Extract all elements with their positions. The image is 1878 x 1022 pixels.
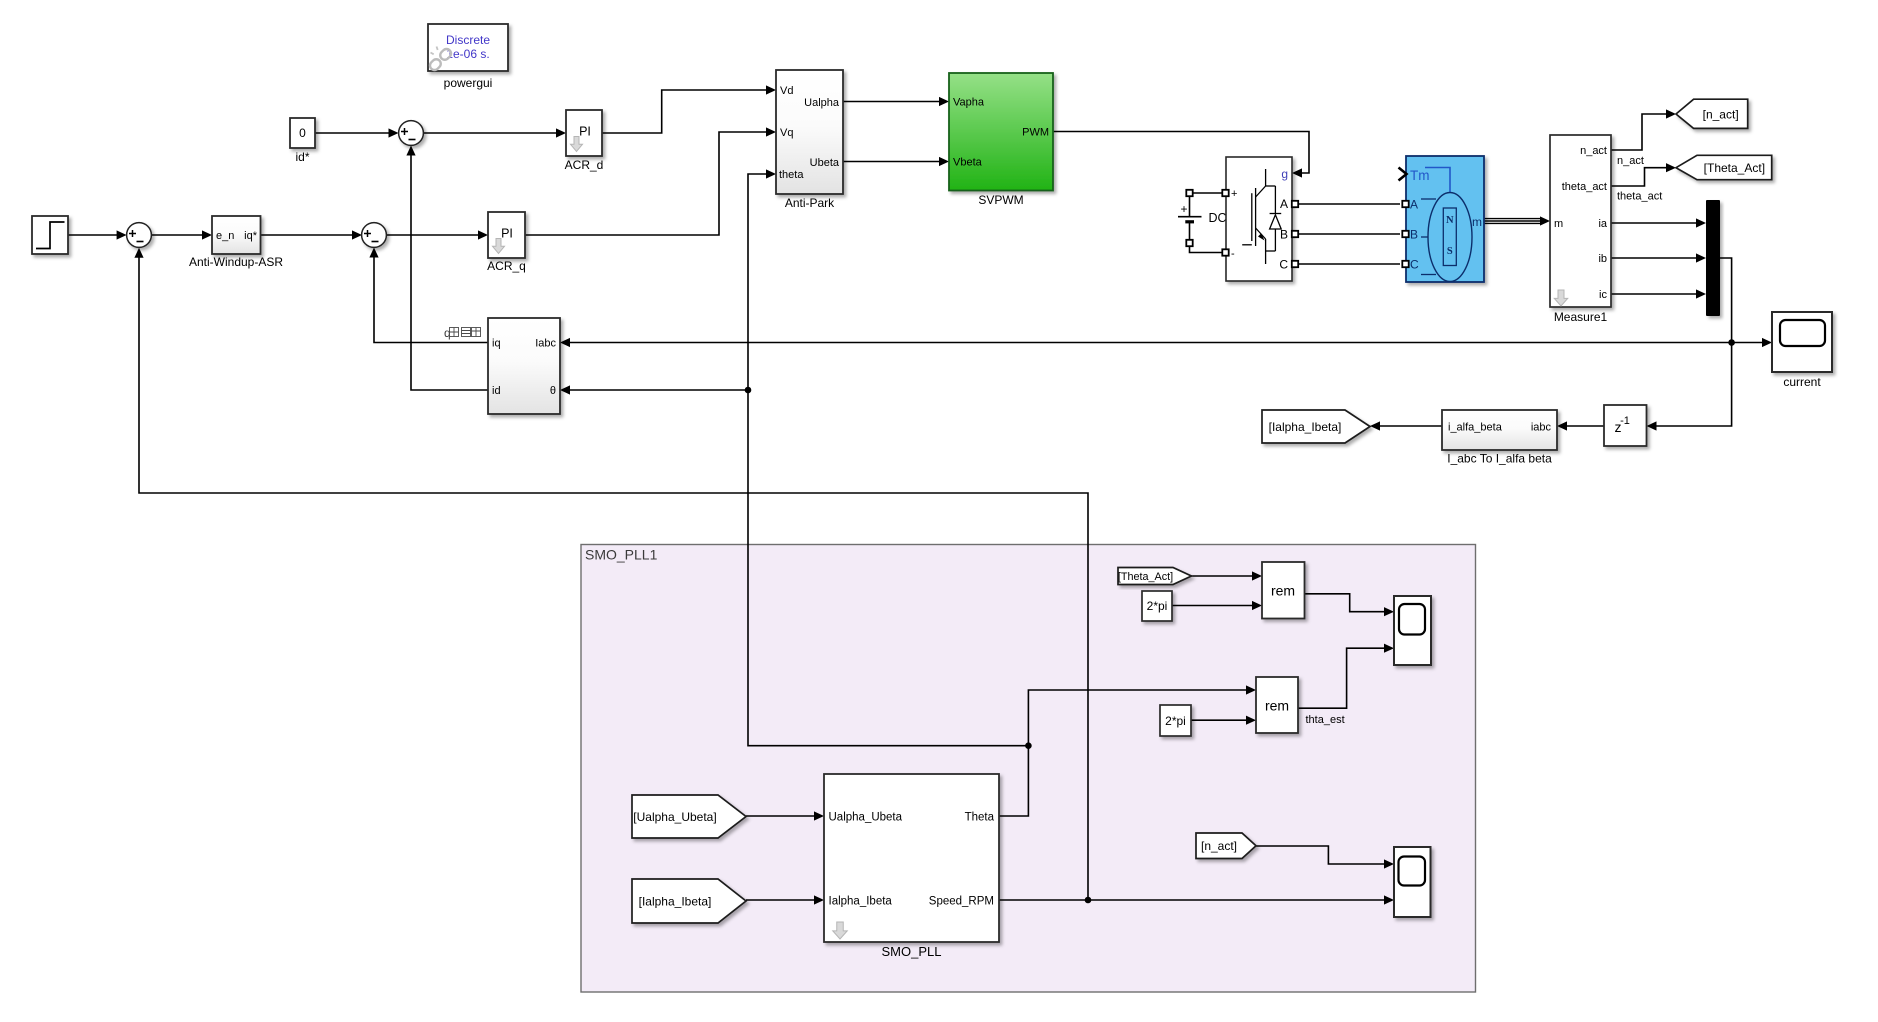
svg-text:Tm: Tm xyxy=(1410,168,1430,183)
svg-text:+: + xyxy=(1180,202,1187,216)
svg-text:e_n: e_n xyxy=(216,230,234,242)
svg-text:Ualpha_Ubeta: Ualpha_Ubeta xyxy=(829,812,903,824)
svg-text:+: + xyxy=(1231,188,1237,200)
svg-text:current: current xyxy=(1783,375,1821,389)
svg-text:i_alfa_beta: i_alfa_beta xyxy=(1448,422,1503,434)
svg-text:theta_act: theta_act xyxy=(1562,181,1607,193)
svg-text:[Ialpha_Ibeta]: [Ialpha_Ibeta] xyxy=(639,894,712,908)
svg-text:rem: rem xyxy=(1271,583,1295,599)
svg-text:iq: iq xyxy=(492,338,501,350)
svg-text:[Ualpha_Ubeta]: [Ualpha_Ubeta] xyxy=(633,810,716,824)
svg-text:m: m xyxy=(1554,218,1563,230)
svg-text:C: C xyxy=(1279,258,1288,272)
svg-text:[n_act]: [n_act] xyxy=(1703,107,1739,121)
svg-text:Ualpha: Ualpha xyxy=(804,97,840,109)
svg-text:ia: ia xyxy=(1598,218,1607,230)
svg-text:-1: -1 xyxy=(1620,415,1630,427)
svg-text:[n_act]: [n_act] xyxy=(1201,839,1237,853)
svg-text:SMO_PLL1: SMO_PLL1 xyxy=(585,547,658,563)
svg-text:Anti-Windup-ASR: Anti-Windup-ASR xyxy=(189,255,283,269)
svg-text:ACR_d: ACR_d xyxy=(565,158,604,172)
svg-text:Vapha: Vapha xyxy=(953,97,985,109)
svg-text:N: N xyxy=(1446,215,1454,226)
svg-text:n_act: n_act xyxy=(1580,145,1607,157)
svg-text:theta_act: theta_act xyxy=(1617,191,1662,203)
svg-text:[Theta_Act]: [Theta_Act] xyxy=(1118,571,1173,583)
svg-text:DC: DC xyxy=(1208,211,1226,225)
svg-text:Speed_RPM: Speed_RPM xyxy=(929,896,994,908)
svg-text:Measure1: Measure1 xyxy=(1554,310,1608,324)
svg-text:n_act: n_act xyxy=(1617,155,1644,167)
svg-text:A: A xyxy=(1410,198,1418,212)
svg-text:iq*: iq* xyxy=(244,230,258,242)
svg-text:2*pi: 2*pi xyxy=(1165,714,1186,728)
svg-text:Vd: Vd xyxy=(780,85,793,97)
svg-text:ib: ib xyxy=(1598,253,1607,265)
svg-text:Iabc: Iabc xyxy=(535,338,556,350)
svg-text:iabc: iabc xyxy=(1531,422,1552,434)
svg-text:S: S xyxy=(1447,246,1453,257)
svg-text:id*: id* xyxy=(295,150,309,164)
svg-text:SVPWM: SVPWM xyxy=(978,193,1023,207)
svg-text:ACR_q: ACR_q xyxy=(487,259,526,273)
svg-text:thta_est: thta_est xyxy=(1306,714,1345,726)
svg-text:[Ialpha_Ibeta]: [Ialpha_Ibeta] xyxy=(1269,420,1342,434)
svg-text:rem: rem xyxy=(1265,698,1289,714)
svg-text:-: - xyxy=(1231,248,1235,260)
svg-text:θ: θ xyxy=(550,385,556,397)
svg-text:I_abc To I_alfa beta: I_abc To I_alfa beta xyxy=(1447,452,1552,466)
svg-text:id: id xyxy=(492,385,501,397)
svg-text:Ialpha_Ibeta: Ialpha_Ibeta xyxy=(829,896,893,908)
svg-text:Anti-Park: Anti-Park xyxy=(785,196,835,210)
svg-text:powergui: powergui xyxy=(444,76,493,90)
svg-text:B: B xyxy=(1410,228,1418,242)
svg-text:Vq: Vq xyxy=(780,127,793,139)
svg-text:2*pi: 2*pi xyxy=(1147,599,1168,613)
svg-text:PI: PI xyxy=(501,227,513,241)
svg-text:Discrete: Discrete xyxy=(446,33,490,47)
svg-text:m: m xyxy=(1472,215,1482,229)
svg-text:Vbeta: Vbeta xyxy=(953,157,983,169)
svg-text:PI: PI xyxy=(579,125,591,139)
svg-text:Ubeta: Ubeta xyxy=(810,157,840,169)
svg-text:Theta: Theta xyxy=(965,812,995,824)
svg-text:C: C xyxy=(1410,258,1419,272)
svg-text:1e-06 s.: 1e-06 s. xyxy=(446,47,489,61)
svg-text:ic: ic xyxy=(1599,289,1607,301)
svg-text:A: A xyxy=(1280,197,1288,211)
svg-text:0: 0 xyxy=(299,126,306,140)
svg-text:PWM: PWM xyxy=(1022,127,1049,139)
svg-text:[Theta_Act]: [Theta_Act] xyxy=(1704,161,1765,175)
svg-text:g: g xyxy=(1281,167,1288,181)
svg-text:theta: theta xyxy=(779,169,804,181)
svg-text:SMO_PLL: SMO_PLL xyxy=(882,944,942,959)
